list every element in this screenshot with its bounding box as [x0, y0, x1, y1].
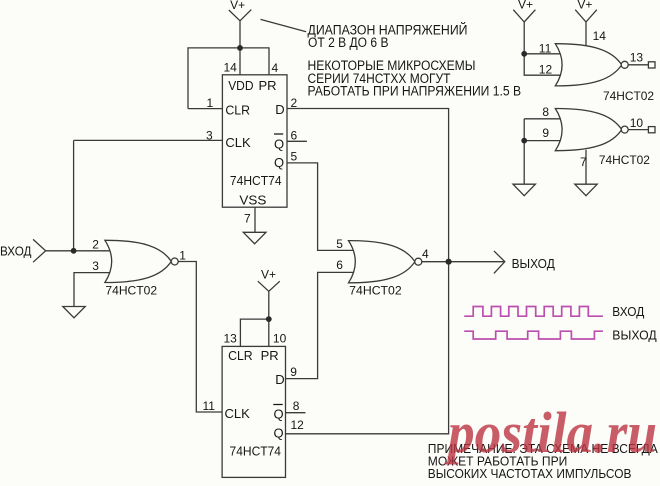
svg-text:ВЫХОД: ВЫХОД [512, 256, 555, 271]
svg-text:12: 12 [539, 62, 553, 76]
svg-text:14: 14 [224, 61, 238, 75]
svg-text:V+: V+ [261, 268, 276, 282]
svg-text:3: 3 [92, 259, 99, 273]
svg-text:13: 13 [630, 50, 644, 64]
svg-text:14: 14 [593, 29, 607, 43]
svg-text:D: D [275, 102, 284, 117]
svg-text:CLK: CLK [225, 406, 251, 421]
svg-text:VSS: VSS [239, 192, 266, 207]
svg-text:РАБОТАТЬ ПРИ НАПРЯЖЕНИИ 1.5 В: РАБОТАТЬ ПРИ НАПРЯЖЕНИИ 1.5 В [308, 83, 522, 98]
svg-text:D: D [275, 372, 284, 387]
svg-text:74HCT02: 74HCT02 [105, 283, 157, 297]
svg-text:V+: V+ [518, 0, 533, 12]
svg-text:4: 4 [272, 61, 279, 75]
svg-text:CLR: CLR [228, 348, 253, 363]
svg-text:74HCT74: 74HCT74 [230, 443, 282, 458]
svg-text:5: 5 [336, 237, 343, 251]
svg-text:VDD: VDD [228, 78, 253, 93]
svg-text:PR: PR [261, 348, 279, 363]
svg-text:74HCT02: 74HCT02 [599, 153, 650, 167]
svg-text:postila.ru: postila.ru [443, 400, 657, 465]
svg-text:9: 9 [290, 365, 297, 379]
svg-text:Q: Q [274, 136, 284, 151]
svg-text:1: 1 [179, 248, 186, 262]
svg-text:Q: Q [274, 426, 284, 441]
svg-text:ВЫСОКИХ ЧАСТОТАХ ИМПУЛЬСОВ: ВЫСОКИХ ЧАСТОТАХ ИМПУЛЬСОВ [428, 466, 632, 481]
svg-text:6: 6 [291, 129, 298, 143]
svg-text:ВХОД: ВХОД [612, 304, 644, 319]
svg-text:12: 12 [291, 418, 305, 432]
svg-text:2: 2 [291, 96, 298, 110]
svg-text:Q: Q [274, 155, 284, 170]
svg-text:8: 8 [293, 399, 300, 413]
svg-text:ВЫХОД: ВЫХОД [612, 328, 657, 343]
svg-text:CLK: CLK [225, 135, 251, 150]
svg-text:ВХОД: ВХОД [0, 244, 32, 259]
svg-text:3: 3 [206, 128, 213, 142]
svg-text:7: 7 [244, 211, 251, 225]
svg-text:74HCT02: 74HCT02 [349, 284, 402, 298]
svg-text:6: 6 [336, 258, 343, 272]
svg-text:PR: PR [259, 78, 277, 93]
svg-text:11: 11 [203, 399, 216, 413]
svg-text:1: 1 [207, 96, 214, 110]
svg-text:V+: V+ [577, 0, 592, 12]
svg-text:V+: V+ [230, 0, 245, 12]
svg-text:ОТ 2 В ДО 6 В: ОТ 2 В ДО 6 В [308, 35, 389, 50]
svg-text:10: 10 [630, 116, 644, 130]
svg-text:8: 8 [542, 105, 549, 119]
svg-text:13: 13 [224, 332, 238, 346]
svg-text:7: 7 [580, 155, 587, 169]
svg-text:4: 4 [422, 247, 429, 261]
svg-text:9: 9 [542, 126, 549, 140]
svg-text:Q: Q [274, 407, 284, 422]
svg-text:11: 11 [539, 41, 552, 55]
svg-text:10: 10 [273, 332, 287, 346]
svg-text:74HCT02: 74HCT02 [603, 89, 654, 103]
svg-text:74HCT74: 74HCT74 [230, 173, 282, 188]
svg-text:5: 5 [291, 150, 298, 164]
svg-text:CLR: CLR [225, 102, 250, 117]
svg-text:2: 2 [92, 238, 99, 252]
